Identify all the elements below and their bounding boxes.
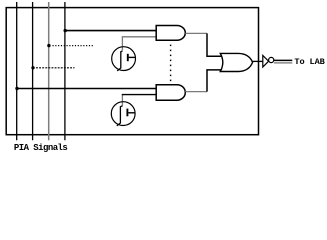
junction dot on bus3 (47, 44, 50, 47)
junction dot on bus2 (31, 66, 34, 69)
wire AND2 to OR bottom input (207, 70, 223, 92)
dotted wire from bus3 (53, 45, 94, 47)
svg-text:PIA Signals: PIA Signals (14, 143, 68, 153)
wire AND2 output (gray) (185, 91, 207, 93)
dotted line between AND gates (170, 45, 172, 82)
bus line 1 (16, 2, 18, 140)
bus line 4 (64, 2, 66, 140)
transistor Q2 (111, 102, 135, 126)
junction dot on bus1 (15, 87, 18, 90)
svg-text:To LAB: To LAB (294, 57, 324, 67)
inverter bubble (269, 57, 274, 62)
bus line 3 (gray) (48, 2, 50, 140)
wire OR output to inverter (253, 60, 263, 62)
AND gate U2 (156, 85, 185, 101)
double line to LAB lower (274, 62, 292, 64)
transistor Q1 (112, 47, 136, 71)
OR gate U3 (220, 53, 252, 71)
wire AND1 to OR top input (207, 33, 223, 56)
dotted wire from bus2 (36, 67, 75, 69)
junction dot on bus4 (63, 29, 66, 32)
wire Q2 drain elbow vertical (gray) (121, 95, 123, 106)
AND gate U1 (156, 26, 185, 41)
wire bus1 to AND2 input1 (17, 88, 157, 90)
wire bus4 to AND1 input1 (65, 30, 156, 32)
wire Q1 drain to AND1 input2 (gray elbow) (122, 37, 156, 51)
inverter U4 (263, 55, 269, 67)
double line to LAB (274, 59, 292, 61)
outer box (6, 8, 258, 135)
bus line 2 (32, 2, 34, 140)
wire Q2 elbow to AND2 input2 (122, 94, 157, 96)
wire AND1 output (gray) (185, 32, 207, 34)
